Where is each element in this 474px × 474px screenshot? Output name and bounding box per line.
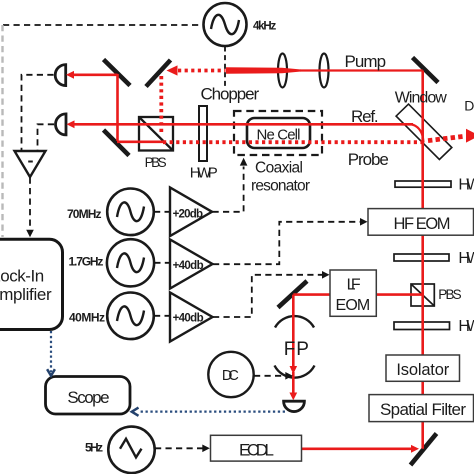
arrow into HF EOM (360, 218, 368, 226)
wire: 5Hz to ECDL (155, 447, 203, 449)
arrow ECDL output (411, 445, 419, 453)
svg-text:Amplifier: Amplifier (0, 285, 52, 304)
wire: PD3 to scope (140, 411, 285, 413)
arrow probe exit (466, 129, 474, 143)
box HF EOM (368, 209, 474, 236)
svg-text:Spatial Filter: Spatial Filter (380, 400, 466, 419)
oscillator 70MHz (107, 189, 154, 236)
svg-text:P: P (296, 339, 309, 360)
arrow into scope (right) (132, 408, 139, 416)
svg-text:EOM: EOM (336, 297, 371, 314)
svg-text:Probe: Probe (348, 150, 389, 169)
svg-text:PBS: PBS (438, 287, 461, 302)
mirror M2 (probe pickoff) (146, 60, 171, 87)
mirror M6 bottom-right (411, 434, 437, 466)
lens L1 (278, 54, 287, 88)
amplifier A1 +20db (170, 188, 212, 237)
arrow into ECDL (202, 445, 210, 453)
svg-text:Ne Cell: Ne Cell (257, 127, 301, 144)
svg-text:HWP: HWP (190, 164, 218, 181)
oscillator 40MHz (107, 293, 154, 340)
wire: Ref beam to PD2 (71, 123, 413, 126)
box Scope (46, 377, 131, 415)
arrow into scope (top) (47, 369, 55, 376)
window (tilted slab) (396, 104, 452, 159)
HWP bar 2 (394, 254, 449, 261)
wire: 70MHz to A1 (154, 211, 170, 213)
svg-text:70MHz: 70MHz (67, 207, 102, 221)
pump beam (thick tapered) (226, 67, 308, 74)
svg-text:Pump: Pump (345, 52, 387, 71)
box Isolator (386, 355, 460, 381)
wire: A1 to coaxial resonator (213, 167, 244, 212)
svg-text:DC: DC (222, 368, 239, 384)
box Lock-In Amplifier (0, 239, 63, 329)
Ne Cell (247, 118, 310, 148)
wire: FP beam lower (292, 372, 295, 393)
wire: A2 to HF EOM (213, 222, 361, 264)
svg-text:+40db: +40db (173, 260, 204, 272)
svg-text:40MHz: 40MHz (69, 310, 105, 324)
HWP waveplate (vertical bar) (199, 106, 207, 161)
wire: M3 to PBS1 (117, 141, 164, 144)
photodetector PD3 (dome, FP output) (284, 401, 305, 411)
arrow FP beam mid (290, 366, 298, 374)
wire: 4kHz reference (top) (3, 24, 203, 26)
svg-text:resonator: resonator (251, 177, 310, 194)
svg-text:4kHz: 4kHz (253, 20, 276, 32)
svg-text:+40db: +40db (173, 313, 204, 325)
wire: FP vertical beam (292, 295, 295, 366)
wire: probe dotted beam (163, 140, 423, 144)
svg-text:ECDL: ECDL (239, 440, 274, 459)
box ECDL (211, 435, 302, 461)
arrow into PD2 (67, 120, 75, 128)
svg-text:5Hz: 5Hz (85, 441, 103, 455)
svg-text:Lock-In: Lock-In (0, 267, 44, 286)
svg-text:+20db: +20db (173, 209, 203, 221)
wire: pump thin segment (300, 69, 423, 71)
wire: A3 to LF EOM (213, 275, 322, 317)
amplifier A2 +40db (170, 240, 213, 289)
wire: probe exit dotted (428, 136, 464, 140)
wire: LF EOM to PBS2 (376, 293, 423, 296)
svg-text:Chopper: Chopper (201, 85, 260, 104)
FP cavity mirror (bottom arc) (275, 366, 315, 378)
difference amplifier (inverter) (15, 151, 46, 177)
wire: 1.7GHz to A2 (154, 262, 169, 264)
wire: lock-in to scope (50, 331, 52, 372)
svg-text:Scope: Scope (67, 388, 109, 407)
svg-text:Window: Window (395, 90, 447, 107)
arrow into PD1 (66, 71, 74, 79)
wire: main vertical beam (421, 71, 424, 449)
arrow DC into FP (285, 372, 293, 380)
svg-text:PBS: PBS (145, 155, 167, 170)
oscillator 4kHz (204, 3, 247, 46)
svg-text:De: De (464, 97, 474, 113)
wire: PD1 to difference amp (22, 75, 54, 151)
mirror M3 lower-left (104, 130, 130, 156)
wire: chopped pump dotted (178, 69, 226, 73)
photodetector PD1 (55, 65, 66, 86)
wire: LF EOM to mirror M5 (293, 293, 330, 296)
FP cavity mirror (top arc) (275, 316, 314, 327)
coaxial resonator dashed box (234, 111, 322, 155)
svg-text:HWP: HWP (458, 177, 474, 194)
svg-text:LF: LF (347, 276, 361, 293)
dashed wire arrowheads (26, 158, 367, 452)
wire: PD2 to difference amp (38, 124, 55, 151)
wire: refraction curve in window (412, 124, 424, 142)
wire: DC to FP (254, 375, 286, 377)
mirror M1 top-left (104, 60, 131, 86)
oscillator 5Hz (ramp) (108, 427, 154, 473)
wire: reference down left edge (grey) (1, 25, 3, 237)
wire: beam to PD1 (71, 74, 118, 77)
wire: dotted beam M2 down to PBS1 (159, 76, 163, 134)
PBS1 cube (139, 117, 173, 151)
PBS2 cube (411, 284, 434, 306)
svg-text:Coaxial: Coaxial (255, 160, 303, 177)
box LF EOM (330, 270, 376, 316)
HWP bar 1 (right column) (395, 181, 451, 187)
svg-text:Isolator: Isolator (396, 361, 449, 379)
arrow into LF EOM (322, 271, 330, 279)
photodetector PD2 (56, 114, 66, 135)
wire: difference amp to lock-in (29, 178, 31, 231)
box Spatial Filter (369, 395, 474, 422)
lens L2 (320, 54, 329, 88)
wire: 4kHz to chopper (224, 47, 226, 89)
svg-text:F: F (284, 339, 296, 360)
arrow into lock-in (26, 230, 34, 238)
HWP bar 3 (394, 322, 450, 330)
arrow into coaxial resonator (240, 158, 248, 166)
svg-text:Ref.: Ref. (351, 107, 379, 126)
arrow into PD3 (289, 393, 297, 401)
wire: 40MHz to A3 (154, 315, 170, 317)
svg-text:HF EOM: HF EOM (394, 215, 451, 233)
DC source (208, 352, 253, 397)
svg-text:HWP: HWP (458, 250, 474, 267)
oscillator 1.7GHz (107, 239, 154, 286)
svg-text:HWP: HWP (458, 318, 474, 335)
wire: vertical beam M1-M3 (116, 74, 119, 141)
wire: ECDL output (301, 447, 412, 450)
mirror M5 near LF EOM (278, 281, 307, 308)
amplifier A3 +40db (170, 293, 213, 342)
mirror M4 top-right (413, 58, 439, 83)
arrow chopped pump (167, 65, 178, 75)
svg-text:1.7GHz: 1.7GHz (69, 255, 104, 269)
